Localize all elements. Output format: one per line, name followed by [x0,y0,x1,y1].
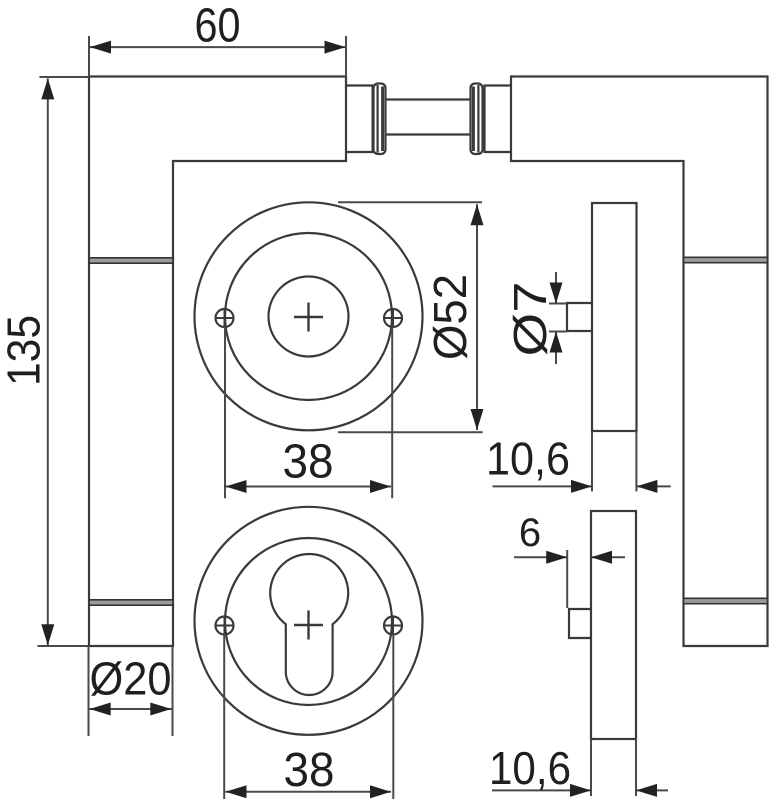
svg-text:10,6: 10,6 [486,433,570,485]
svg-text:38: 38 [284,744,335,797]
svg-text:60: 60 [195,0,241,52]
svg-text:135: 135 [0,315,50,386]
svg-text:38: 38 [283,436,334,489]
svg-text:Ø7: Ø7 [504,282,556,357]
svg-text:6: 6 [519,511,541,555]
svg-text:Ø20: Ø20 [90,653,172,705]
svg-text:Ø52: Ø52 [424,274,476,360]
svg-text:10,6: 10,6 [489,742,571,794]
